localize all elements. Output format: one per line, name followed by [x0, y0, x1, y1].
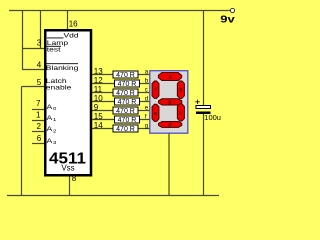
wire resistor g to segment g [138, 128, 150, 130]
svg-text:11: 11 [94, 85, 103, 94]
resistor R3 470R (segment c) [113, 89, 138, 97]
wire pin 11 to resistor c [92, 92, 113, 94]
svg-text:c: c [180, 110, 183, 116]
resistor R2 470R (segment b) [115, 80, 140, 88]
svg-text:e: e [154, 111, 157, 117]
svg-text:14: 14 [94, 121, 103, 130]
svg-text:test: test [47, 46, 62, 54]
svg-text:12: 12 [94, 76, 103, 85]
wire 0V bottom rail [7, 195, 219, 197]
wire resistor a to segment a [138, 74, 150, 76]
svg-text:100u: 100u [204, 113, 221, 122]
svg-text:b: b [179, 88, 182, 94]
wire resistor f to segment f [140, 119, 150, 121]
segment d [159, 121, 182, 127]
svg-text:470 R: 470 R [116, 90, 135, 97]
wire pin 13 to resistor a [92, 74, 113, 76]
svg-text:470 R: 470 R [118, 117, 137, 124]
wire pin 16 to top rail [67, 11, 69, 30]
overline test [46, 45, 61, 47]
svg-text:16: 16 [69, 19, 78, 28]
svg-text:d: d [168, 122, 171, 128]
svg-text:6: 6 [37, 134, 42, 143]
svg-text:470 R: 470 R [116, 72, 135, 79]
wire stub pin 2 (A2) [32, 131, 45, 133]
battery terminal 9V [230, 8, 234, 12]
wire resistor c to segment c [138, 92, 150, 94]
svg-text:4: 4 [37, 60, 42, 69]
svg-text:9: 9 [94, 103, 99, 112]
wire resistor b to segment b [140, 83, 150, 85]
segment g [159, 99, 182, 105]
wire display to 0V rail [168, 134, 170, 196]
wire pin 14 to resistor g [92, 128, 113, 130]
svg-text:3: 3 [37, 38, 42, 47]
wire capacitor top [203, 11, 205, 106]
svg-text:8: 8 [72, 174, 77, 183]
svg-text:g: g [168, 100, 171, 106]
wire pin 10 to resistor d [92, 101, 115, 103]
svg-text:Vdd: Vdd [64, 32, 79, 40]
wire pin 15 to resistor f [92, 119, 115, 121]
svg-text:d: d [145, 97, 148, 103]
wire pin 12 to resistor b [92, 83, 115, 85]
wire stub pin 1 (A1) [32, 120, 45, 122]
svg-text:9v: 9v [220, 14, 235, 25]
wire stub pin 6 (A3) [32, 143, 45, 145]
svg-text:470 R: 470 R [116, 108, 135, 115]
svg-text:470 R: 470 R [118, 81, 137, 88]
resistor R1 470R (segment a) [113, 71, 138, 79]
wire pin 9 to resistor e [92, 110, 113, 112]
svg-text:2: 2 [36, 122, 41, 131]
svg-text:5: 5 [37, 78, 42, 87]
wire stub pin 7 (A0) [32, 109, 45, 111]
segment a [158, 72, 181, 80]
svg-text:13: 13 [94, 67, 103, 76]
wire resistor d to segment d [140, 101, 150, 103]
segment f [152, 81, 159, 99]
capacitor C1 bottom plate [196, 112, 211, 115]
svg-text:470 R: 470 R [118, 99, 137, 106]
capacitor C1 plus sign [195, 100, 199, 104]
resistor R4 470R (segment d) [115, 98, 140, 106]
segment b [177, 81, 184, 99]
wire pin 4 horizontal [22, 69, 45, 71]
wire vertical from top rail to pin 3 (x=40.5) [40, 11, 42, 49]
wire pin 3 horizontal [22, 48, 45, 50]
svg-text:10: 10 [94, 94, 103, 103]
segment c [177, 104, 184, 121]
svg-text:7: 7 [36, 99, 41, 108]
wire vertical pin 5 to 0V rail [21, 87, 23, 196]
svg-text:enable: enable [46, 84, 72, 92]
wire pin 8 to 0V rail [69, 176, 71, 196]
svg-text:1: 1 [36, 110, 41, 119]
overline Blanking [46, 63, 78, 65]
overline lamp test (Vdd row) [47, 37, 64, 39]
resistor R5 470R (segment e) [113, 107, 138, 115]
svg-text:Blanking: Blanking [46, 64, 79, 72]
svg-text:470 R: 470 R [116, 126, 135, 133]
IC U1 4511 body [45, 30, 91, 175]
7-segment display body [150, 71, 188, 134]
wire capacitor bottom [203, 114, 205, 196]
capacitor C1 top plate (hollow) [196, 106, 211, 109]
svg-text:g: g [145, 124, 148, 130]
wire vertical from top rail to pin 4 (x=22.5) [22, 11, 24, 70]
svg-text:15: 15 [94, 112, 103, 121]
wire +9V top rail [9, 10, 231, 12]
segment e [152, 104, 159, 121]
resistor R7 470R (segment g) [113, 125, 138, 133]
svg-text:c: c [145, 88, 148, 94]
wire resistor e to segment e [138, 110, 150, 112]
wire pin 5 horizontal [22, 86, 45, 88]
svg-text:Vss: Vss [61, 164, 74, 173]
resistor R6 470R (segment f) [115, 116, 140, 124]
